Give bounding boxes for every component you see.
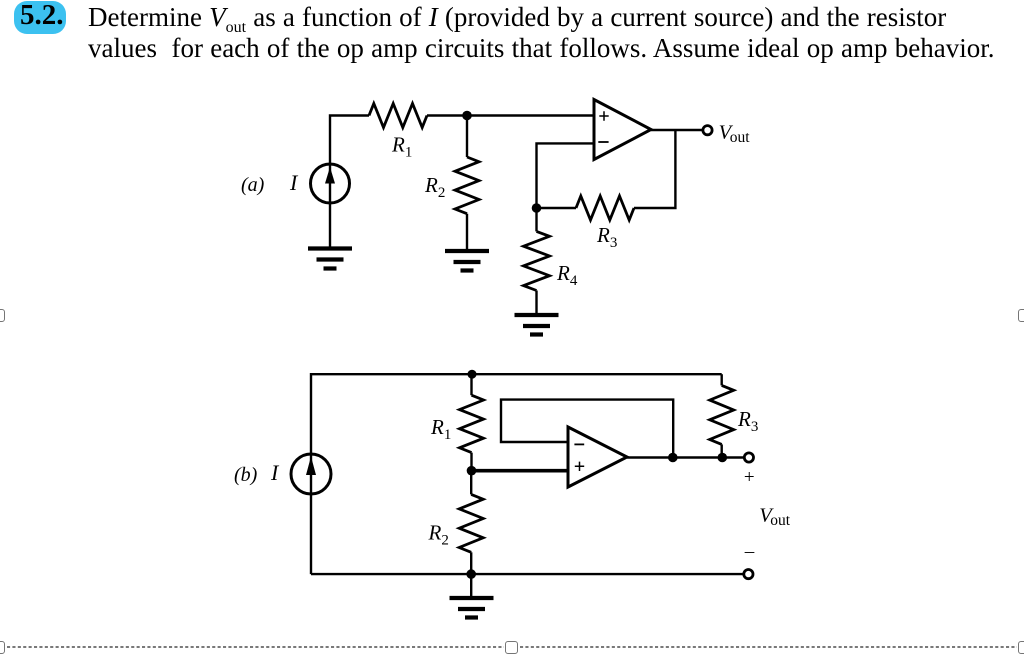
- op-amp U1 plus input mark: [599, 111, 608, 120]
- selection handle bottom right: [1018, 641, 1024, 654]
- wire: output branch down to R3: [634, 130, 675, 208]
- selection handle left middle: [0, 309, 5, 322]
- op-amp U1 minus input mark: [598, 141, 608, 143]
- svg-text:R1: R1: [391, 133, 412, 161]
- node: top rail junction with R1: [468, 370, 477, 379]
- svg-text:out: out: [730, 129, 751, 146]
- svg-text:–: –: [744, 541, 755, 562]
- resistor R2 (b): [459, 494, 483, 552]
- selection handle bottom left: [0, 641, 5, 654]
- output terminal - (b): [744, 570, 753, 579]
- wire: node to op-amp noninverting input (b) thick: [472, 469, 569, 473]
- wire: feedback loop from inverting input to output (b): [501, 400, 673, 458]
- selection dashed border bottom: [7, 646, 1017, 648]
- current source I (b): [291, 454, 331, 494]
- svg-text:R2: R2: [428, 521, 449, 549]
- ground (b): [450, 598, 494, 618]
- svg-text:R2: R2: [424, 173, 445, 201]
- resistor R2 (a): [455, 157, 479, 214]
- node: output junction with feedback: [668, 453, 678, 463]
- wire: R1 to middle node (b): [470, 453, 472, 471]
- wire: op-amp output: [651, 129, 703, 131]
- ground below current source (a): [308, 249, 352, 269]
- wire: node to R1 (b): [470, 374, 472, 395]
- svg-text:R3: R3: [737, 407, 758, 435]
- node: output junction with R3: [718, 453, 728, 463]
- current source I (a): [311, 164, 350, 203]
- resistor R1 (b): [460, 395, 484, 452]
- svg-text:R4: R4: [556, 261, 578, 289]
- op-amp U1 triangle: [594, 100, 651, 160]
- output terminal + (b): [744, 453, 753, 462]
- problem statement line 2: [88, 33, 995, 64]
- wire: R1 to op-amp noninverting input: [427, 114, 594, 116]
- resistor R3 (b): [710, 385, 734, 444]
- resistor R4 (a): [524, 231, 550, 290]
- arrow of current source (b): [306, 457, 316, 476]
- wire: current source to ground: [329, 204, 331, 247]
- wire through current source: [329, 163, 331, 204]
- wire through current source (b): [310, 453, 312, 495]
- output terminal Vout (a): [703, 126, 712, 135]
- wire: node down to R2: [466, 116, 468, 158]
- wire: R3 to summing node: [537, 207, 577, 209]
- svg-text:(b): (b): [234, 464, 258, 486]
- wire: current source to bottom rail: [310, 495, 312, 574]
- op-amp U2 plus input mark: [575, 462, 584, 471]
- wire: circuit b top rail: [311, 374, 722, 453]
- resistor R1: [369, 104, 427, 128]
- op-amp U2 triangle (b): [568, 427, 627, 487]
- wire: op-amp output to terminal (b): [627, 456, 744, 458]
- op-amp U2 minus input mark: [574, 443, 584, 445]
- wire: R3 to output node (b): [721, 444, 723, 457]
- node: bottom rail junction (b): [466, 569, 476, 579]
- selection handle bottom middle: [505, 641, 518, 654]
- wire: R4 to ground: [535, 291, 537, 314]
- wire: op-amp inverting input feedback: [537, 143, 595, 208]
- svg-text:R3: R3: [596, 223, 617, 251]
- selection handle right middle: [1018, 309, 1024, 322]
- wire: bottom node to ground (b): [470, 574, 472, 596]
- wire: circuit a top rail from current source to R1: [330, 116, 369, 164]
- svg-text:R1: R1: [430, 415, 451, 443]
- problem statement line 1: [88, 2, 946, 33]
- node: junction R1, R2, op-amp + input (b): [467, 466, 477, 476]
- svg-text:I: I: [270, 460, 280, 485]
- wire: top rail to R3 (b): [721, 374, 723, 385]
- svg-text:out: out: [770, 512, 791, 529]
- resistor R3 (a): [576, 196, 634, 220]
- ground below R4 (a): [515, 315, 559, 335]
- wire: node to R2 (b): [470, 471, 472, 495]
- problem number 5.2.: [20, 0, 64, 32]
- problem number badge: [14, 1, 66, 35]
- svg-text:I: I: [289, 170, 299, 195]
- wire: R2 to bottom rail: [470, 552, 472, 574]
- node: junction of R1, R2, op-amp + input: [462, 111, 472, 121]
- svg-text:+: +: [744, 467, 755, 488]
- node: junction R3, R4, inverting input: [532, 203, 542, 213]
- wire: bottom rail: [311, 573, 744, 575]
- svg-text:(a): (a): [241, 174, 265, 196]
- arrow of current source (a): [325, 167, 335, 184]
- ground below R2: [445, 251, 489, 271]
- wire: node to R4: [535, 208, 537, 231]
- wire: R2 to ground: [466, 214, 468, 250]
